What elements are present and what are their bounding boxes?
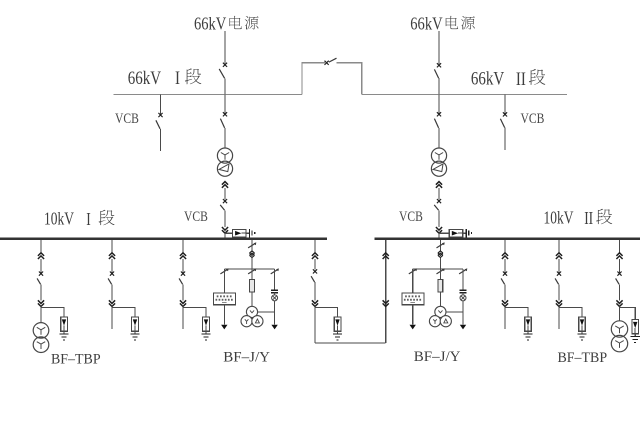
disconnector: right middle branch blade [437, 269, 445, 274]
contact: feeder L2 withdrawable plug (lower) [109, 300, 115, 306]
breaker: feeder L1 VCB [37, 259, 43, 300]
wire: bus-tie left riser from bus I [314, 240, 316, 253]
arrow: left right branch outgoing [271, 325, 277, 330]
wire: bridge riser left [302, 63, 325, 95]
wire: T2 LV to breaker [438, 188, 440, 200]
disconnector: left left branch blade [220, 269, 228, 274]
svg-text:VCB: VCB [521, 110, 545, 127]
contact: T1 LV withdrawable plug (upper) [222, 182, 228, 188]
surge arrester: feeder L3 [203, 317, 210, 334]
ground [333, 334, 342, 340]
svg-text:BF–J/Y: BF–J/Y [223, 349, 270, 365]
breaker: feeder R3 VCB [616, 259, 622, 300]
svg-text:VCB: VCB [115, 110, 139, 127]
wire: BF-J/Y right main drop [439, 240, 441, 250]
wire: BF-J/Y right to sub-bus [439, 258, 441, 269]
bus: 66kV section II [362, 94, 567, 96]
wire: T2 breaker to lower plug [438, 210, 440, 227]
bus: 66kV section I [114, 94, 303, 96]
transformer: BF-TBP left (10kV load) [33, 323, 49, 353]
wire: incoming-2 to 66kV bus II [438, 78, 440, 94]
wire: bridge riser right [337, 63, 362, 95]
wire: feeder L3 tail [182, 307, 184, 330]
contact: BF-J/Y right plug contacts [438, 251, 443, 258]
ground [59, 334, 68, 340]
label: 10kV bus section I [44, 210, 115, 230]
svg-text:II: II [516, 68, 526, 89]
wire: bus-tie cross link [315, 342, 386, 344]
relay box: right protection device [402, 293, 424, 305]
svg-text:I: I [175, 67, 180, 88]
wire: feeder R2 from bus [558, 240, 560, 253]
svg-text:66kV: 66kV [194, 15, 227, 33]
wire: BF-J/Y left main drop [251, 240, 253, 250]
breaker: feeder L2 VCB [108, 259, 114, 300]
wire: right right branch upper [462, 269, 464, 290]
contact: T2 LV withdrawable plug (lower) [436, 227, 442, 233]
bus: BF-J/Y right sub-bus [413, 268, 463, 270]
wire: feeder R1 tail [504, 307, 506, 330]
contact: bus-tie withdrawable plug (upper right) [383, 253, 389, 259]
wire: feeder R3 tail [619, 307, 621, 322]
arrow: right right branch outgoing [460, 325, 466, 330]
wire: left right branch lower [274, 301, 276, 325]
wire: right PT to right branch [446, 311, 463, 313]
ground [466, 229, 471, 238]
wire: left PT to right branch [258, 311, 275, 313]
ground [577, 334, 586, 340]
label: 66kV bus section II [471, 68, 545, 89]
wire: right middle branch upper [439, 269, 441, 280]
breaker VCB: 66kV feeder right [500, 95, 507, 150]
capacitor: left coupling capacitor [271, 290, 278, 292]
svg-text:BF–TBP: BF–TBP [558, 349, 608, 366]
wire: right capacitor to indicator [462, 293, 464, 295]
disconnector: left middle branch blade [248, 269, 256, 274]
arrow: right left branch outgoing [410, 325, 416, 330]
ground [201, 334, 210, 340]
wire: left left branch upper [223, 269, 225, 293]
wire: T1 breaker to lower plug [224, 210, 226, 227]
wire: left right branch upper [274, 269, 276, 290]
svg-text:10kV: 10kV [44, 210, 75, 229]
surge arrester: feeder R3 [632, 320, 639, 337]
wire: right left branch upper [412, 269, 414, 293]
wire: feeder R3 from bus [619, 240, 621, 253]
breaker VCB: T1 10kV main [220, 199, 227, 210]
wire: source-2 drop [438, 31, 440, 64]
wire: feeder L3 arrester branch [183, 307, 206, 317]
contact: feeder R1 withdrawable plug (lower) [502, 300, 508, 306]
wire: feeder L1 from bus [40, 240, 42, 253]
surge arrester: feeder R2 [579, 317, 586, 334]
wire: feeder R1 arrester branch [505, 307, 528, 317]
ground [250, 229, 255, 238]
wire: feeder R2 tail [558, 307, 560, 330]
surge arrester: T1 10kV side [225, 229, 249, 237]
wire: right right branch lower [462, 301, 464, 325]
svg-text:10kV: 10kV [544, 209, 575, 228]
contact: feeder R2 withdrawable plug (lower) [556, 300, 562, 306]
svg-text:VCB: VCB [184, 208, 208, 225]
surge arrester: T2 10kV side [439, 229, 466, 237]
wire: incoming-1 to 66kV bus I [224, 78, 226, 94]
svg-text:BF–TBP: BF–TBP [51, 351, 101, 368]
label: 66kV source 2 [410, 15, 475, 33]
disconnector: BF-J/Y left fused switch blade [248, 243, 256, 248]
wire: T1 LV to breaker [224, 188, 226, 200]
bus: 10kV section I [0, 238, 327, 240]
transformer T2 (66/10kV, Y-delta) [431, 148, 446, 176]
label: 10kV bus section II [544, 209, 613, 229]
contact: T2 LV withdrawable plug (upper) [436, 182, 442, 188]
disconnector: right left branch blade [409, 269, 417, 274]
indicator: right voltage indicator lamp [460, 295, 466, 301]
contact: feeder R3 withdrawable plug (lower) [616, 300, 622, 306]
contact: feeder R2 withdrawable plug (upper) [556, 253, 562, 259]
breaker: feeder R2 VCB [555, 259, 561, 300]
svg-text:VCB: VCB [399, 208, 423, 225]
svg-text:II: II [584, 209, 593, 228]
label: 66kV source 1 [194, 15, 259, 33]
surge arrester: feeder R1 [525, 317, 532, 334]
contact: feeder L3 withdrawable plug (upper) [180, 253, 186, 259]
wire: left capacitor to indicator [274, 293, 276, 295]
disconnector: transformer T2 HV switch [434, 95, 441, 149]
contact: bus-tie withdrawable plug (lower right) [383, 300, 389, 306]
contact: feeder L1 withdrawable plug (lower) [38, 300, 44, 306]
contact: feeder L2 withdrawable plug (upper) [109, 253, 115, 259]
arrow: left left branch outgoing [221, 325, 227, 330]
wire: bus-tie arrester branch [315, 307, 338, 317]
bus: BF-J/Y left sub-bus [224, 268, 274, 270]
transformer T1 (66/10kV, Y-delta) [217, 148, 232, 176]
relay box: left protection device [214, 293, 236, 305]
disconnector: left right branch blade [271, 269, 279, 274]
wire: feeder L2 tail [111, 307, 113, 330]
wire: T1 to 10kV bus [224, 233, 226, 238]
disconnector: 66kV bus-tie bridge switch [325, 58, 337, 65]
contact: feeder R1 withdrawable plug (upper) [502, 253, 508, 259]
bus: 10kV section II [375, 238, 640, 240]
contact: feeder L3 withdrawable plug (lower) [180, 300, 186, 306]
contact: feeder L1 withdrawable plug (upper) [38, 253, 44, 259]
voltage transformer PT: right three-winding [429, 306, 451, 327]
svg-text:BF–J/Y: BF–J/Y [414, 349, 461, 365]
svg-text:I: I [86, 210, 90, 229]
breaker: feeder L3 VCB [179, 259, 185, 300]
wire: T2 to 10kV bus [438, 233, 440, 238]
svg-text:66kV: 66kV [410, 15, 443, 33]
contact: feeder R3 withdrawable plug (upper) [616, 253, 622, 259]
capacitor: right coupling capacitor [459, 290, 466, 292]
wire: feeder R1 from bus [504, 240, 506, 253]
disconnector: transformer T1 HV switch [220, 95, 227, 149]
wire: left left branch lower [223, 305, 225, 325]
label: 66kV bus section I [128, 67, 202, 88]
voltage transformer PT: left three-winding [241, 306, 263, 327]
disconnector: 66kV incoming-2 line switch [434, 63, 441, 78]
breaker: feeder R1 VCB [501, 259, 507, 300]
wire: left middle branch upper [251, 269, 253, 280]
wire: feeder R2 arrester branch [559, 307, 582, 317]
ground [523, 334, 532, 340]
indicator: left voltage indicator lamp [272, 295, 278, 301]
surge arrester: feeder L1 [61, 317, 68, 334]
wire: source-1 drop [224, 31, 226, 63]
disconnector: BF-J/Y right fused switch blade [437, 243, 445, 248]
wire: feeder L1 arrester branch [41, 307, 64, 317]
surge arrester: bus-tie [334, 317, 341, 334]
contact: bus-tie withdrawable plug (lower left) [312, 300, 318, 306]
svg-text:66kV: 66kV [128, 67, 162, 88]
surge arrester: feeder L2 [132, 317, 139, 334]
wire: feeder L2 arrester branch [112, 307, 135, 317]
fuse: right PT fuse [438, 280, 443, 292]
breaker VCB: T2 10kV main [434, 199, 441, 210]
wire: bus-tie right riser [385, 240, 387, 343]
contact: bus-tie withdrawable plug (upper left) [312, 253, 318, 259]
disconnector: 66kV incoming-1 line switch [219, 63, 227, 79]
wire: left fuse to PT [251, 292, 253, 307]
transformer: BF-TBP right (10kV load) [611, 321, 627, 352]
breaker VCB: 66kV feeder left [156, 95, 163, 152]
ground [130, 334, 139, 340]
fuse: left PT fuse [250, 280, 255, 292]
wire: feeder L1 tail [40, 307, 42, 323]
wire: right left branch lower [412, 305, 414, 325]
ground [631, 337, 640, 343]
wire: feeder R3 arrester branch [620, 307, 636, 319]
wire: feeder L3 from bus [182, 240, 184, 253]
contact: BF-J/Y left plug contacts [250, 251, 255, 258]
wire: BF-J/Y left to sub-bus [251, 258, 253, 269]
contact: T1 LV withdrawable plug (lower) [222, 227, 228, 233]
breaker: 10kV bus-tie VCB [311, 259, 317, 300]
svg-text:66kV: 66kV [471, 68, 505, 89]
wire: feeder L2 from bus [111, 240, 113, 253]
disconnector: right right branch blade [459, 269, 467, 274]
wire: bus-tie left riser lower [314, 307, 316, 344]
wire: right fuse to PT [439, 292, 441, 307]
